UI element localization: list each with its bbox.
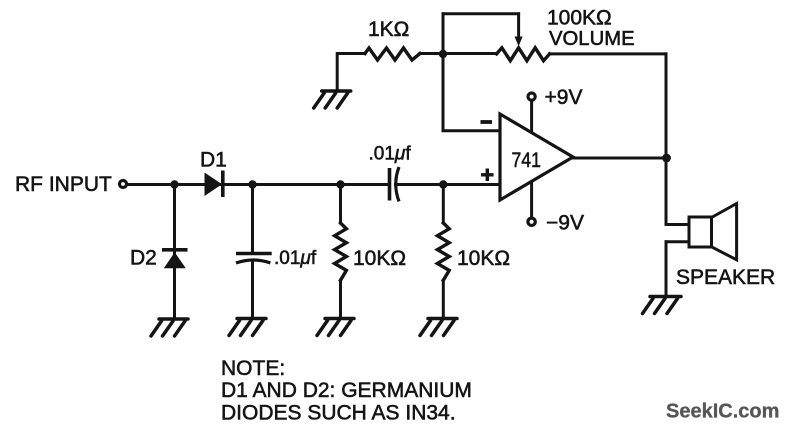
svg-text:VOLUME: VOLUME <box>549 28 635 50</box>
svg-text:10KΩ: 10KΩ <box>353 247 406 270</box>
svg-text:D1: D1 <box>200 149 227 172</box>
svg-text:10KΩ: 10KΩ <box>457 247 510 270</box>
svg-text:.01μf: .01μf <box>274 248 317 269</box>
svg-text:SeekIC.com: SeekIC.com <box>666 401 779 423</box>
svg-text:1KΩ: 1KΩ <box>368 18 409 41</box>
svg-text:.01μf: .01μf <box>369 144 412 165</box>
svg-text:+9V: +9V <box>545 86 583 109</box>
svg-text:D2: D2 <box>130 247 157 270</box>
svg-text:RF INPUT: RF INPUT <box>15 173 112 196</box>
svg-text:SPEAKER: SPEAKER <box>676 266 775 289</box>
svg-text:D1 AND D2: GERMANIUM: D1 AND D2: GERMANIUM <box>221 379 472 402</box>
svg-text:741: 741 <box>512 148 541 172</box>
svg-text:NOTE:: NOTE: <box>221 357 285 380</box>
svg-text:100KΩ: 100KΩ <box>547 7 612 30</box>
svg-text:DIODES SUCH AS IN34.: DIODES SUCH AS IN34. <box>221 402 456 425</box>
svg-text:−9V: −9V <box>546 212 584 235</box>
